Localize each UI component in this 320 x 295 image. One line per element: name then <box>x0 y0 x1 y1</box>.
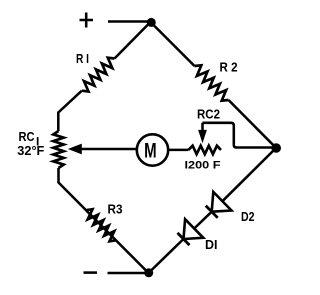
wire node to R1 <box>115 22 151 59</box>
resistor RC2 1200F <box>189 146 222 154</box>
diode D2 cathode bar <box>206 206 218 218</box>
wiper arrow wire meter to RC1 <box>79 148 137 151</box>
wire bottom terminal <box>108 272 149 275</box>
wire D2 to D1 <box>194 212 212 229</box>
wire meter to RC2 resistor <box>169 149 189 152</box>
wire RC2 wiper bracket <box>203 123 277 148</box>
resistor R2 <box>195 65 229 100</box>
node right junction dot <box>271 143 281 153</box>
svg-text:RC: RC <box>19 129 36 144</box>
svg-text:DI: DI <box>205 237 218 252</box>
diode D1 <box>184 219 204 239</box>
svg-text:M: M <box>144 139 157 162</box>
node bottom junction dot <box>144 268 153 277</box>
resistor R1 <box>82 58 115 92</box>
diode D2 <box>212 192 232 212</box>
svg-text:RC2: RC2 <box>197 107 220 122</box>
wire node to R2 <box>151 22 195 66</box>
resistor RC1 <box>53 131 63 168</box>
node top junction dot <box>147 18 156 27</box>
wiper arrowhead <box>69 144 81 153</box>
svg-text:I200 F: I200 F <box>185 160 221 172</box>
svg-text:32°F: 32°F <box>17 143 44 158</box>
svg-text:R I: R I <box>76 51 89 66</box>
minus terminal - <box>84 271 98 274</box>
svg-text:R3: R3 <box>108 202 123 217</box>
wire D1 to bottom node <box>149 239 184 273</box>
wire right node to D2 <box>222 148 276 201</box>
plus terminal + <box>80 13 94 28</box>
wire top-left terminal <box>108 20 150 23</box>
svg-text:D2: D2 <box>241 209 255 224</box>
op meter M <box>137 134 168 165</box>
wire R2 to right node <box>229 100 277 148</box>
resistor R3 <box>86 209 116 241</box>
wire RC1 to corner <box>59 168 149 273</box>
RC2 wiper arrow <box>201 123 204 132</box>
svg-text:R 2: R 2 <box>220 59 238 74</box>
diode D1 cathode bar <box>178 233 190 245</box>
wire R1 to corner <box>58 91 82 131</box>
